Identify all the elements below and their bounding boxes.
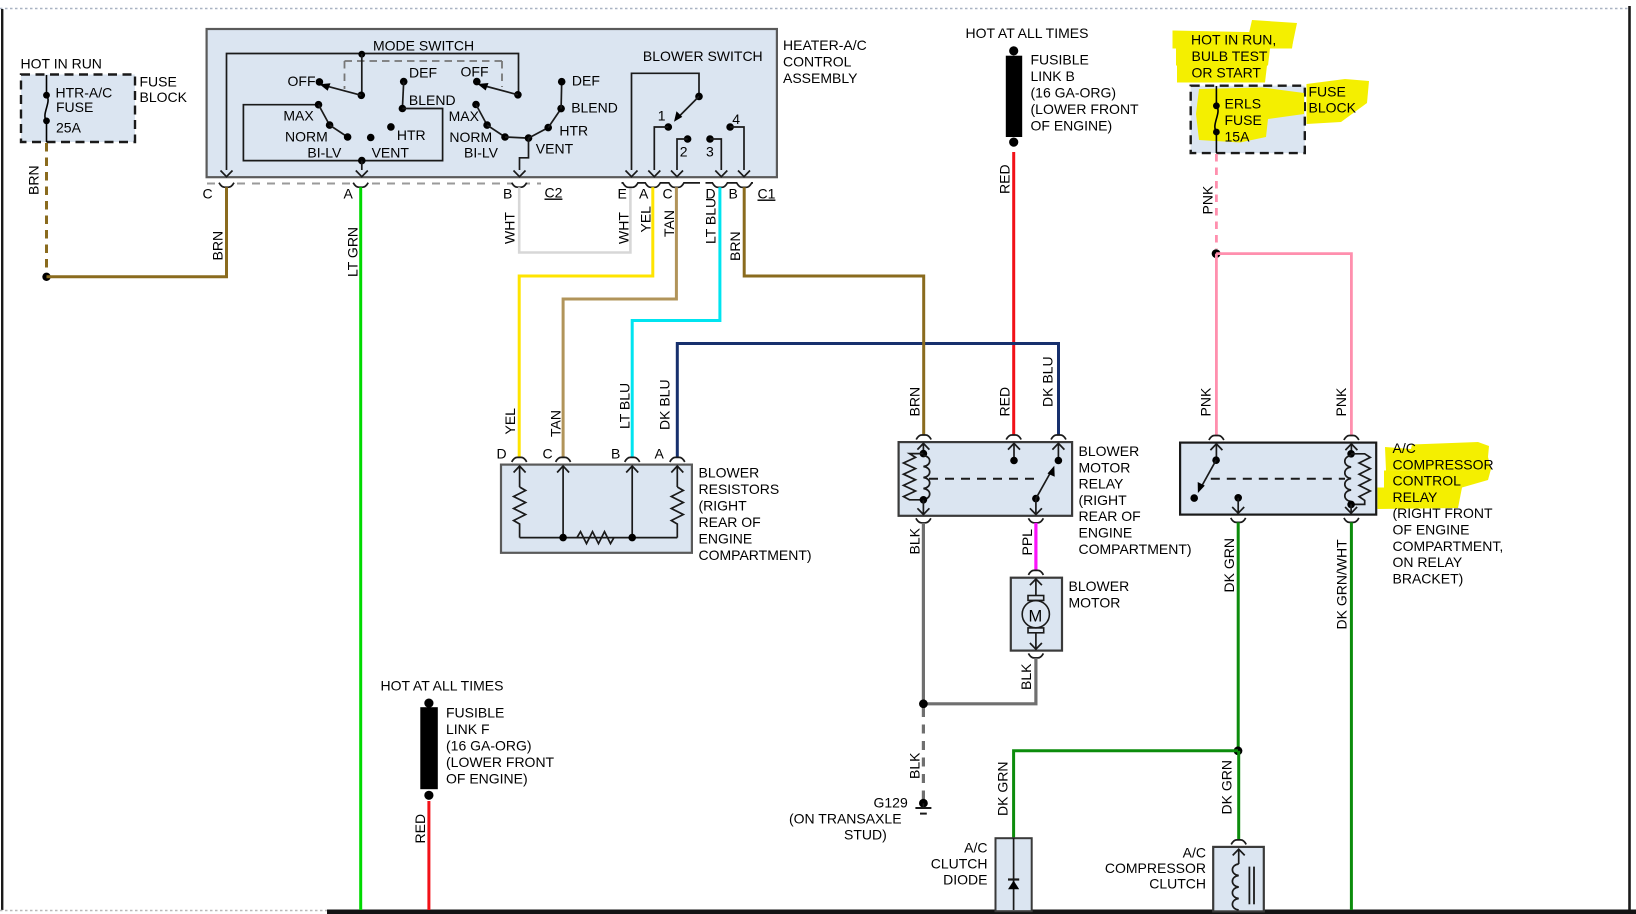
svg-text:FUSE: FUSE <box>56 99 93 115</box>
connector bracket pin B <box>503 183 527 202</box>
connector bracket resistors pin C <box>543 446 571 462</box>
svg-text:(ON TRANSAXLE: (ON TRANSAXLE <box>789 811 902 827</box>
svg-text:A/C: A/C <box>964 840 987 856</box>
label DEF pole2 <box>572 73 600 89</box>
svg-text:CONTROL: CONTROL <box>1393 473 1462 489</box>
svg-text:COMPRESSOR: COMPRESSOR <box>1393 456 1494 472</box>
page bottom dotted line (left of bar) <box>0 910 327 912</box>
resistor element pin A leg <box>671 466 683 538</box>
svg-text:REAR OF: REAR OF <box>1079 508 1141 524</box>
svg-text:VENT: VENT <box>372 145 410 161</box>
label DK BLU (at resistors) <box>657 379 673 430</box>
label NORM pole2 <box>449 129 492 145</box>
svg-text:C1: C1 <box>758 186 776 202</box>
svg-text:WHT: WHT <box>502 212 518 244</box>
svg-text:CLUTCH: CLUTCH <box>931 856 988 872</box>
svg-text:FUSE: FUSE <box>1309 84 1346 100</box>
svg-text:BRN: BRN <box>907 387 923 417</box>
label BLOWER MOTOR <box>1069 578 1130 611</box>
svg-text:BRN: BRN <box>26 165 42 195</box>
wire BRN dashed from fuse <box>45 143 48 273</box>
svg-text:DIODE: DIODE <box>943 872 987 888</box>
svg-text:REAR OF: REAR OF <box>699 514 761 530</box>
label BRN (at relay) <box>907 387 923 417</box>
node relay pin RED <box>1008 443 1020 464</box>
node blower position 4 <box>726 111 750 177</box>
label DK GRN/WHT <box>1334 539 1350 630</box>
label BRN (pin B C1) <box>727 231 743 261</box>
svg-text:BRN: BRN <box>210 231 226 261</box>
svg-text:15A: 15A <box>1225 129 1251 145</box>
svg-text:BLK: BLK <box>907 527 923 554</box>
wire DK GRN branch to diode <box>1014 751 1238 838</box>
page bottom black bar <box>327 910 1636 914</box>
wire RED (link F down) <box>427 801 430 910</box>
highlighter mark inside fuse block <box>1196 88 1304 143</box>
pin B arrow (assembly) <box>514 171 526 177</box>
label PNK (upper) <box>1199 185 1215 214</box>
page right border line <box>1628 6 1631 912</box>
wire pole1 contact ring <box>243 105 442 161</box>
svg-text:OFF: OFF <box>461 64 489 80</box>
wire TAN <box>563 187 676 457</box>
connector bracket pin E <box>618 183 701 202</box>
svg-text:HOT IN RUN,: HOT IN RUN, <box>1191 32 1276 48</box>
svg-text:2: 2 <box>680 144 688 160</box>
wire YEL <box>519 187 653 457</box>
svg-text:FUSIBLE: FUSIBLE <box>1031 52 1089 68</box>
mode switch pole1 pivot and arm <box>320 83 366 99</box>
wire BLK (relay to junction) <box>922 523 925 704</box>
svg-text:C: C <box>663 186 673 202</box>
svg-text:DK BLU: DK BLU <box>657 379 673 430</box>
svg-text:M: M <box>1029 608 1043 626</box>
junction dot PNK <box>1212 249 1221 258</box>
connector bracket blower motor (top) <box>1028 570 1043 575</box>
label FUSIBLE LINK F (16 GA-ORG) (LOWER FRONT OF ENGINE) <box>446 705 555 787</box>
svg-text:BLOCK: BLOCK <box>140 89 188 105</box>
svg-text:BI-LV: BI-LV <box>464 145 499 161</box>
node AC relay middle pin <box>1232 494 1244 513</box>
connector dashed line below assembly <box>207 183 541 185</box>
node HOT AT ALL TIMES label (bottom left) <box>381 678 504 694</box>
node relay pin DK BLU <box>1052 443 1064 464</box>
svg-text:4: 4 <box>732 111 740 127</box>
label BLK (motor) <box>1018 663 1034 690</box>
svg-text:PNK: PNK <box>1199 185 1215 214</box>
connector bracket pin C (C1) <box>663 186 673 202</box>
label TAN (at resistors) <box>548 410 564 437</box>
connector bracket underlays <box>219 182 526 188</box>
connector bracket relay pin BLK (bottom) <box>916 518 931 523</box>
svg-text:FUSE: FUSE <box>140 74 177 90</box>
label BLK (ground) <box>906 752 922 779</box>
svg-text:A: A <box>639 186 649 202</box>
label HTR-A/C FUSE 25A <box>56 85 113 136</box>
svg-text:C: C <box>543 446 553 462</box>
svg-text:BLOWER SWITCH: BLOWER SWITCH <box>643 48 763 64</box>
svg-text:WHT: WHT <box>616 212 632 244</box>
junction dot BRN corner <box>42 273 50 281</box>
svg-text:HTR: HTR <box>559 123 588 139</box>
svg-text:C2: C2 <box>545 185 563 201</box>
svg-text:MAX: MAX <box>283 108 314 124</box>
svg-text:BLOWER: BLOWER <box>699 465 760 481</box>
connector bracket blower motor (bottom) <box>1028 653 1043 658</box>
mode switch pole2 pivot and arm <box>478 83 522 99</box>
svg-text:E: E <box>618 186 627 202</box>
svg-text:MOTOR: MOTOR <box>1079 459 1131 475</box>
wire DK GRN (junction to clutch) <box>1237 751 1240 840</box>
svg-text:DK GRN/WHT: DK GRN/WHT <box>1334 539 1350 630</box>
label BLOWER SWITCH <box>643 48 763 64</box>
blower motor relay box <box>899 442 1073 516</box>
svg-text:RELAY: RELAY <box>1393 489 1439 505</box>
label BLOWER MOTOR RELAY (RIGHT REAR OF ENGINE COMPARTMENT) <box>1079 443 1192 557</box>
svg-text:BLOWER: BLOWER <box>1079 443 1140 459</box>
label FUSIBLE LINK B (16 GA-ORG) (LOWER FRONT OF ENGINE) <box>1031 52 1140 134</box>
label YEL (top) <box>638 206 654 233</box>
connector bracket AC relay pin DK GRN/WHT (bottom) <box>1344 518 1359 523</box>
svg-text:G129: G129 <box>874 795 908 811</box>
connector bracket AC relay pin PNK left (top) <box>1209 436 1224 441</box>
fuse block box (top left, dashed) <box>21 75 135 143</box>
svg-text:ASSEMBLY: ASSEMBLY <box>783 70 858 86</box>
svg-text:BRN: BRN <box>727 231 743 261</box>
svg-text:B: B <box>729 186 738 202</box>
svg-text:OF ENGINE: OF ENGINE <box>1393 522 1470 538</box>
svg-text:(16 GA-ORG): (16 GA-ORG) <box>446 738 532 754</box>
label PNK (right at relay) <box>1333 387 1349 416</box>
label A/C COMPRESSOR CONTROL RELAY (RIGHT FRONT OF ENGINE COMPARTMENT, ON RELAY BRACKET) <box>1393 440 1504 586</box>
pin C arrow (assembly) <box>221 171 233 177</box>
svg-text:RED: RED <box>997 387 1013 417</box>
connector bracket AC relay pin PNK right (top) <box>1344 436 1359 441</box>
label BLOWER RESISTORS (RIGHT REAR OF ENGINE COMPARTMENT) <box>699 465 812 564</box>
svg-text:HOT AT ALL TIMES: HOT AT ALL TIMES <box>966 25 1089 41</box>
connector bracket pin B (C1) <box>729 186 738 202</box>
svg-text:BLEND: BLEND <box>571 100 618 116</box>
label A/C COMPRESSOR CLUTCH <box>1105 845 1206 892</box>
wire DK BLU (resistors pin A to relay) <box>677 344 1058 458</box>
wire pole2 VENT to pin B <box>520 138 529 170</box>
svg-text:HOT AT ALL TIMES: HOT AT ALL TIMES <box>381 678 504 694</box>
node MAX dot pole2 and chain <box>472 78 565 142</box>
svg-text:BI-LV: BI-LV <box>307 145 342 161</box>
svg-text:DK GRN: DK GRN <box>1221 538 1237 592</box>
wire BLK dashed to ground <box>922 708 925 799</box>
resistor element pin D leg <box>514 466 526 538</box>
svg-text:25A: 25A <box>56 120 82 136</box>
connector bracket AC relay pin DK GRN (bottom) <box>1231 518 1246 523</box>
label WHT (pin E) <box>616 212 632 244</box>
label LT BLU (at resistors) <box>617 383 633 429</box>
label VENT pole2 <box>536 141 574 157</box>
svg-text:PNK: PNK <box>1198 387 1214 416</box>
label A/C CLUTCH DIODE <box>931 840 988 888</box>
node HOT IN RUN BULB TEST OR START label <box>1191 32 1276 81</box>
connector bracket pin A (C1) <box>639 186 649 202</box>
svg-text:D: D <box>497 446 507 462</box>
svg-text:BLEND: BLEND <box>409 92 456 108</box>
svg-text:OR START: OR START <box>1192 65 1262 81</box>
connector bracket pin C <box>203 183 235 202</box>
svg-text:B: B <box>503 186 512 202</box>
svg-text:HEATER-A/C: HEATER-A/C <box>783 37 867 53</box>
wire LT GRN <box>359 187 362 910</box>
svg-text:A: A <box>655 446 665 462</box>
label C1 connector <box>758 186 776 202</box>
svg-text:(LOWER FRONT: (LOWER FRONT <box>446 754 555 770</box>
connector bracket compressor clutch (top) <box>1231 840 1246 845</box>
label MODE SWITCH <box>373 38 474 54</box>
compressor clutch coil symbol <box>1232 849 1254 910</box>
svg-text:DK GRN: DK GRN <box>995 762 1011 816</box>
svg-text:3: 3 <box>706 144 714 160</box>
svg-text:BLOWER: BLOWER <box>1069 578 1130 594</box>
connector bracket relay pin DK BLU (top) <box>1051 435 1066 440</box>
wire DK GRN (AC relay to junction to clutch) <box>1237 522 1240 747</box>
wire WHT U (pin B to pin E) <box>519 187 630 252</box>
svg-text:A: A <box>344 186 354 202</box>
highlighter mark (FUSE BLOCK label) <box>1307 79 1370 124</box>
svg-text:LINK B: LINK B <box>1031 68 1075 84</box>
svg-text:1: 1 <box>658 108 666 124</box>
wire BRN pin C vertical <box>225 187 228 277</box>
label HEATER-A/C CONTROL ASSEMBLY <box>783 37 867 86</box>
svg-text:PNK: PNK <box>1333 387 1349 416</box>
svg-text:BLOCK: BLOCK <box>1309 100 1357 116</box>
svg-text:(RIGHT: (RIGHT <box>1079 492 1128 508</box>
svg-text:CONTROL: CONTROL <box>783 54 852 70</box>
relay switch arm <box>1030 466 1055 515</box>
highlighter marks (HOT IN RUN BULB TEST OR START) <box>1173 20 1298 83</box>
label PPL <box>1019 529 1035 556</box>
relay coil (blower motor relay) <box>904 443 930 514</box>
label BRN (left, rotated) <box>26 165 42 195</box>
connector bracket relay pin PPL (bottom) <box>1028 518 1043 523</box>
svg-text:NORM: NORM <box>449 129 492 145</box>
blower motor box <box>1011 578 1062 651</box>
node HOT AT ALL TIMES label (top middle) <box>966 25 1089 41</box>
svg-text:RELAY: RELAY <box>1079 476 1125 492</box>
wire PNK left branch (to relay pin) <box>1215 254 1218 435</box>
label RED (top) <box>997 164 1013 194</box>
connector bracket relay pin BRN (top) <box>916 435 931 440</box>
svg-text:LT GRN: LT GRN <box>345 227 361 277</box>
svg-text:DEF: DEF <box>409 65 437 81</box>
blower switch feed and pivot <box>632 73 703 170</box>
blower resistors box <box>501 465 692 553</box>
svg-text:COMPRESSOR: COMPRESSOR <box>1105 860 1206 876</box>
page left border line <box>1 9 3 910</box>
highlighter marks (A/C COMPRESSOR CONTROL RELAY) <box>1378 442 1492 509</box>
wire PNK dashed from fuse <box>1215 154 1218 249</box>
label DK GRN (below AC relay) <box>1221 538 1237 592</box>
node pole1 output dot and pin A arrow <box>356 157 368 177</box>
label TAN (top) <box>661 210 677 237</box>
node DEF dot pole1 <box>400 65 437 86</box>
wire LT BLU <box>632 187 720 457</box>
svg-text:COMPARTMENT): COMPARTMENT) <box>1079 541 1192 557</box>
label DK GRN (at clutch) <box>1219 760 1235 814</box>
svg-text:A/C: A/C <box>1393 440 1416 456</box>
svg-text:PPL: PPL <box>1019 529 1035 556</box>
svg-text:NORM: NORM <box>285 129 328 145</box>
svg-text:YEL: YEL <box>502 408 518 435</box>
svg-text:RED: RED <box>997 164 1013 194</box>
label LT GRN <box>345 227 361 277</box>
label RED (bottom left) <box>412 814 428 844</box>
fuse block box (top right, dashed) <box>1191 86 1305 153</box>
node blower position 1 <box>648 108 672 177</box>
resistor horizontal element <box>577 532 614 544</box>
label BLEND pole2 <box>571 100 618 116</box>
node blower position 3 <box>706 135 727 177</box>
svg-text:OFF: OFF <box>288 73 316 89</box>
svg-text:OF ENGINE): OF ENGINE) <box>446 771 528 787</box>
wire RED (link B to relay) <box>1012 152 1015 435</box>
wire PNK right branch <box>1216 254 1351 435</box>
svg-text:MOTOR: MOTOR <box>1069 595 1121 611</box>
connector bracket relay pin RED (top) <box>1006 435 1021 440</box>
mode switch mechanical dashed box <box>345 61 503 89</box>
label BI-LV pole2 <box>464 145 499 161</box>
svg-text:MODE SWITCH: MODE SWITCH <box>373 38 474 54</box>
svg-text:STUD): STUD) <box>844 827 887 843</box>
label MAX pole1 <box>283 108 314 124</box>
relay internal dashed link <box>929 478 1041 480</box>
wire BRN solid to pin C <box>47 188 227 277</box>
svg-text:DEF: DEF <box>572 73 600 89</box>
label RED (at relay) <box>997 387 1013 417</box>
node blower position 2 <box>671 135 691 177</box>
wire DEF-BLEND pole1 <box>402 82 403 109</box>
node mode switch pole1 link dot <box>358 51 365 96</box>
label DK BLU (at relay) <box>1040 356 1056 407</box>
fusible link B <box>1006 46 1022 146</box>
resistor element pin C leg <box>557 466 569 541</box>
node MAX dot pole1 and chain <box>315 101 352 141</box>
label MAX pole2 <box>449 108 480 124</box>
connector bracket resistors pin B <box>611 446 640 462</box>
svg-text:COMPARTMENT): COMPARTMENT) <box>699 547 812 563</box>
label HTR pole2 <box>559 123 588 139</box>
svg-text:ENGINE: ENGINE <box>699 531 753 547</box>
label BLK (relay) <box>907 527 923 554</box>
svg-text:(LOWER FRONT: (LOWER FRONT <box>1031 101 1140 117</box>
node HTR dot pole1 <box>387 123 426 143</box>
label C2 connector <box>545 185 563 201</box>
svg-text:TAN: TAN <box>548 410 564 437</box>
node VENT dot pole1 <box>367 134 409 161</box>
svg-text:VENT: VENT <box>536 141 574 157</box>
wire BLK (motor to junction) <box>923 658 1036 704</box>
motor M1 symbol <box>1022 579 1049 649</box>
pin E arrow (assembly) <box>626 171 638 177</box>
svg-text:HTR: HTR <box>397 127 426 143</box>
svg-text:FUSE: FUSE <box>1225 112 1262 128</box>
resistor bottom bus wire <box>520 537 678 539</box>
svg-text:FUSIBLE: FUSIBLE <box>446 705 504 721</box>
node OFF dot pole1 <box>288 73 324 89</box>
ground G129 <box>915 799 931 814</box>
svg-text:TAN: TAN <box>661 210 677 237</box>
svg-text:RED: RED <box>412 814 428 844</box>
page top dotted border <box>0 8 1630 10</box>
svg-text:(RIGHT FRONT: (RIGHT FRONT <box>1393 505 1494 521</box>
A/C clutch diode box <box>996 838 1032 911</box>
wire PPL <box>1034 523 1037 571</box>
resistor element pin B leg <box>626 466 638 541</box>
label G129 (ON TRANSAXLE STUD) <box>789 795 908 843</box>
AC relay internal dashed link <box>1211 478 1345 480</box>
svg-text:C: C <box>203 186 213 202</box>
label FUSE BLOCK (top left) <box>140 74 188 106</box>
node BLEND dot pole1 <box>399 92 456 112</box>
label FUSE BLOCK (top right) <box>1309 84 1357 116</box>
AC relay coil <box>1345 444 1371 513</box>
svg-text:BRACKET): BRACKET) <box>1393 570 1464 586</box>
svg-text:B: B <box>611 446 620 462</box>
svg-text:ERLS: ERLS <box>1225 96 1262 112</box>
svg-text:(16 GA-ORG): (16 GA-ORG) <box>1031 85 1117 101</box>
svg-text:HOT IN RUN: HOT IN RUN <box>21 56 102 72</box>
A/C compressor control relay box <box>1180 443 1376 515</box>
label NORM pole1 <box>285 129 328 145</box>
wire mode switch feed line (top) <box>227 54 519 171</box>
junction dot BLK <box>919 699 928 708</box>
label ERLS FUSE 15A <box>1225 96 1262 145</box>
junction dot DK GRN <box>1234 746 1243 755</box>
wire BRN (pin B C1 to relay) <box>744 187 924 434</box>
svg-text:RESISTORS: RESISTORS <box>699 481 780 497</box>
A/C compressor clutch box <box>1213 847 1264 912</box>
svg-text:(RIGHT: (RIGHT <box>699 498 748 514</box>
label BRN pin C <box>210 231 226 261</box>
svg-text:CLUTCH: CLUTCH <box>1149 876 1206 892</box>
svg-text:ENGINE: ENGINE <box>1079 525 1133 541</box>
wire DK GRN/WHT <box>1350 522 1353 910</box>
connector bracket pin A <box>344 183 369 202</box>
heater-A/C control assembly box <box>207 29 777 177</box>
node HOT IN RUN label (top left) <box>21 56 102 72</box>
svg-text:LT BLU: LT BLU <box>617 383 633 429</box>
svg-text:BULB TEST: BULB TEST <box>1192 48 1268 64</box>
svg-text:A/C: A/C <box>1183 845 1206 861</box>
svg-text:YEL: YEL <box>638 206 654 233</box>
svg-text:DK GRN: DK GRN <box>1219 760 1235 814</box>
svg-text:MAX: MAX <box>449 108 480 124</box>
label DK GRN (at diode) <box>995 762 1011 816</box>
connector bracket resistors pin D <box>497 446 527 462</box>
label PNK (left at relay) <box>1198 387 1214 416</box>
svg-text:COMPARTMENT,: COMPARTMENT, <box>1393 538 1504 554</box>
fuse HTR-A/C 25A <box>43 75 50 142</box>
svg-text:DK BLU: DK BLU <box>1040 356 1056 407</box>
fusible link F <box>420 699 438 800</box>
label BI-LV pole1 <box>307 145 342 161</box>
label LT BLU (top) <box>703 198 719 244</box>
svg-text:OF ENGINE): OF ENGINE) <box>1031 118 1113 134</box>
fuse ERLS 15A <box>1213 86 1220 153</box>
svg-text:BLK: BLK <box>1018 663 1034 690</box>
connector bracket resistors pin A <box>655 446 685 462</box>
AC relay switch arm <box>1190 444 1222 502</box>
diode symbol <box>1008 838 1019 910</box>
svg-text:LT BLU: LT BLU <box>703 198 719 244</box>
svg-text:BLK: BLK <box>906 752 922 779</box>
